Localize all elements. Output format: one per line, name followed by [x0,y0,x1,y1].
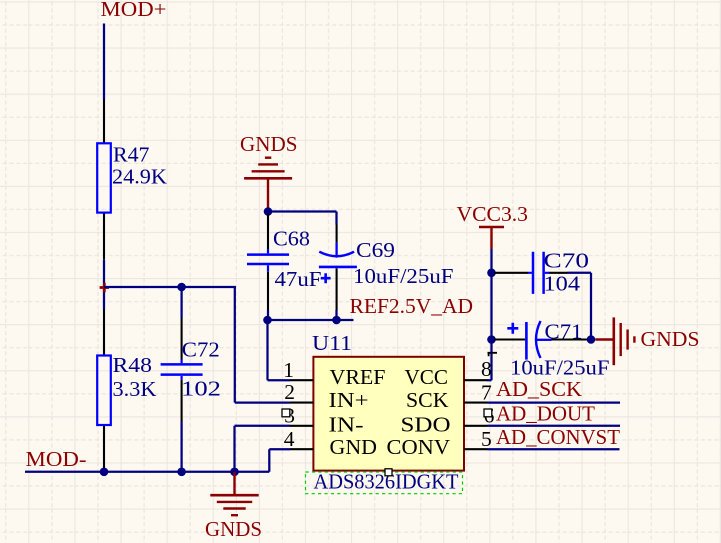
net label REF2.5V_AD [350,294,474,318]
svg-text:C68: C68 [273,227,310,251]
wire [268,320,291,380]
wire [268,319,354,321]
wire [103,24,105,100]
svg-text:24.9K: 24.9K [112,165,167,189]
selection handle (bottom of U11) [385,469,392,476]
capacitor C68 [247,213,322,310]
net label AD_SCK [496,377,582,401]
svg-text:MOD-: MOD- [26,447,87,471]
svg-text:GND: GND [330,435,378,459]
svg-text:VCC3.3: VCC3.3 [457,202,529,226]
power port VCC3.3 [457,202,529,249]
wire [268,210,337,212]
wire [234,287,236,403]
svg-text:AD_DOUT: AD_DOUT [496,402,595,426]
power port GNDS (right) [595,317,699,365]
svg-text:10uF/25uF: 10uF/25uF [353,264,454,288]
svg-text:8: 8 [481,357,492,381]
IC U11 body [312,331,464,471]
pin 7 SCK [406,381,492,413]
svg-text:IN-: IN- [329,413,364,437]
svg-text:2: 2 [284,380,295,404]
svg-text:47uF: 47uF [275,267,322,291]
wire [487,249,492,380]
junction [177,283,186,292]
svg-text:5: 5 [481,427,492,451]
svg-text:C70: C70 [544,249,590,273]
pin 1 VREF [283,358,385,389]
pin 6 SDO [401,403,495,436]
resistor R48 [97,310,157,472]
junction [230,468,239,477]
svg-text:U11: U11 [312,331,352,355]
wire [488,448,620,450]
wire [568,273,592,340]
selection handle (near pin 6) [484,409,492,417]
wire [235,401,290,403]
junction [100,468,109,477]
selection handle (near pin 3) [282,409,290,417]
svg-text:GNDS: GNDS [240,132,298,156]
svg-text:GNDS: GNDS [641,327,700,351]
junction [263,316,272,325]
svg-text:C69: C69 [356,238,395,262]
power port GNDS (top) [240,132,298,212]
power port MOD- [26,447,87,471]
svg-text:SCK: SCK [406,388,449,412]
svg-text:R47: R47 [113,143,150,167]
svg-text:C72: C72 [182,338,220,362]
capacitor C71 [494,320,610,380]
net label AD_CONVST [496,425,620,449]
wire [103,260,105,310]
junction [487,269,496,278]
junction [487,335,496,344]
svg-text:1: 1 [283,358,294,382]
pin 2 IN+ [284,380,368,412]
svg-text:7: 7 [481,381,492,405]
wire [233,426,235,472]
svg-text:10uF/25uF: 10uF/25uF [510,356,610,380]
no-ERC marker [100,283,109,292]
junction [177,468,186,477]
power port MOD+ [101,0,167,21]
svg-text:VREF: VREF [330,365,386,389]
wire [267,310,269,320]
wire [488,425,621,427]
selection box for ADS8326IDGKT [306,470,463,494]
wire [180,422,182,472]
svg-text:3.3K: 3.3K [113,377,157,401]
junction [332,316,341,325]
tick mark near pin 8 [488,353,498,356]
capacitor C69 [319,225,454,311]
capacitor C72 [161,318,221,422]
wire [25,471,269,473]
net label AD_DOUT [496,402,595,426]
svg-text:R48: R48 [113,353,153,377]
svg-text:AD_CONVST: AD_CONVST [496,425,620,449]
pin 4 GND [284,427,377,459]
wire [335,212,337,321]
svg-text:REF2.5V_AD: REF2.5V_AD [350,294,474,318]
svg-text:IN+: IN+ [329,388,369,412]
svg-text:SDO: SDO [401,413,451,437]
wire [104,286,236,288]
svg-text:104: 104 [544,272,581,296]
pin 8 VCC [405,357,492,389]
svg-text:GNDS: GNDS [205,517,262,541]
capacitor C70 [494,249,589,296]
svg-text:4: 4 [284,427,295,451]
junction [264,207,273,216]
wire [180,287,182,318]
svg-text:AD_SCK: AD_SCK [496,377,582,401]
svg-text:102: 102 [181,377,221,401]
wire [235,425,291,427]
wire [488,401,621,403]
pin 5 CONV [387,427,492,459]
wire [269,449,290,472]
svg-text:CONV: CONV [387,435,451,459]
svg-text:C71: C71 [545,320,583,344]
svg-text:VCC: VCC [405,365,449,389]
pin 3 IN- [284,403,363,436]
resistor R47 [97,99,167,260]
svg-text:MOD+: MOD+ [101,0,167,21]
junction [587,335,596,344]
power port GNDS (bottom) [205,472,262,541]
